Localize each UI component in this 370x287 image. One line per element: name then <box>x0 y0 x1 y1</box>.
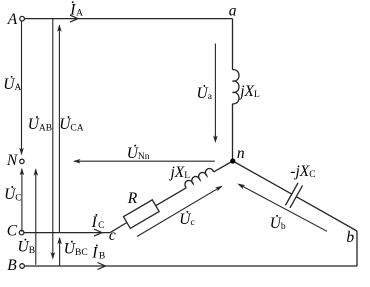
wire B line <box>25 265 357 267</box>
wire c to resistor <box>110 223 127 233</box>
svg-text:a: a <box>229 3 237 20</box>
terminal B <box>20 264 25 269</box>
wire C to c <box>24 232 110 234</box>
svg-text:R: R <box>127 190 138 207</box>
current arrow IA <box>70 15 78 22</box>
svg-text:UCA: UCA <box>59 116 84 133</box>
voltage arrow UBC (B to C) <box>59 238 61 266</box>
voltage arrow UNn (n to N) <box>75 160 215 162</box>
svg-text:Ub: Ub <box>270 215 286 232</box>
voltage arrow UA (A to N) <box>21 22 23 154</box>
svg-text:UNn: UNn <box>127 145 150 162</box>
svg-text:UC: UC <box>4 186 22 203</box>
inductor jXL (phase c) <box>183 167 213 188</box>
wire inductor to node n <box>214 161 233 172</box>
svg-text:UB: UB <box>18 239 36 256</box>
svg-text:B: B <box>7 257 17 274</box>
svg-text:b: b <box>346 229 354 246</box>
svg-text:jXL: jXL <box>238 83 260 100</box>
wire resistor to inductor <box>156 188 187 206</box>
voltage arrow UAB (A to B) <box>52 19 54 258</box>
voltage arrow UB (B to N) <box>35 170 37 265</box>
voltage arrow Ua (a to n) <box>214 44 216 142</box>
svg-text:IB: IB <box>91 245 105 262</box>
svg-text:c: c <box>109 227 116 244</box>
capacitor -jXC <box>285 183 302 208</box>
svg-text:-jXC: -jXC <box>290 163 315 180</box>
current arrow IB <box>98 263 106 270</box>
svg-text:A: A <box>7 11 18 28</box>
terminal A <box>20 16 25 21</box>
svg-text:N: N <box>6 152 19 169</box>
terminal N <box>20 159 24 163</box>
svg-text:IA: IA <box>69 1 83 18</box>
voltage arrow Ub (b to n) <box>239 184 327 231</box>
resistor R <box>123 200 159 229</box>
voltage arrow UC (C to N) <box>21 169 23 232</box>
inductor jXL (phase a) <box>233 70 239 104</box>
svg-text:C: C <box>7 223 18 240</box>
voltage arrow Uc (c to n) <box>137 186 222 236</box>
wire n to capacitor <box>233 161 292 194</box>
current arrow IC <box>94 229 102 236</box>
wire capacitor to b <box>296 197 357 231</box>
svg-text:UAB: UAB <box>28 116 52 133</box>
voltage arrow UCA (C to A) <box>58 26 60 233</box>
svg-text:UA: UA <box>3 76 21 93</box>
svg-text:IC: IC <box>91 214 105 231</box>
node n <box>230 158 235 163</box>
svg-text:n: n <box>237 145 245 162</box>
svg-text:jXL: jXL <box>169 164 191 181</box>
svg-text:Uc: Uc <box>179 211 194 228</box>
terminal C <box>19 230 24 235</box>
svg-text:Ua: Ua <box>197 85 213 102</box>
svg-text:UBC: UBC <box>64 241 88 258</box>
wire a down to inductor <box>232 19 234 70</box>
wire inductor to node n <box>232 104 234 160</box>
wire b down to B line <box>356 231 358 266</box>
wire A to a (top phase line) <box>25 18 233 20</box>
